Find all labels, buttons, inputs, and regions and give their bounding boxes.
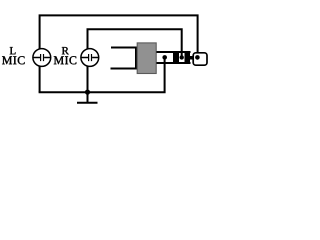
wire: bottom ground rail to sleeve bbox=[39, 58, 165, 92]
label MIC (left) bbox=[2, 56, 24, 64]
label MIC (right) bbox=[54, 56, 76, 64]
microphone L MIC bbox=[33, 49, 51, 67]
insulator band 1 bbox=[173, 51, 179, 64]
plug boot (open-left box) bbox=[111, 47, 137, 70]
label L bbox=[10, 47, 16, 54]
node: ring dot bbox=[180, 55, 184, 59]
label R bbox=[62, 47, 69, 54]
wire: top rail from left rail to tip drop bbox=[40, 15, 198, 92]
plug tip bbox=[193, 53, 207, 65]
node: tip dot bbox=[195, 55, 200, 60]
ground bbox=[77, 92, 98, 103]
node: ground junction dot bbox=[85, 90, 90, 95]
tip neck bbox=[189, 56, 196, 60]
node: sleeve dot bbox=[162, 55, 167, 60]
plug body (gray rect) bbox=[137, 43, 156, 74]
plug shaft outline bbox=[157, 52, 191, 63]
wire: second rail from R mic to ring drop bbox=[88, 29, 182, 92]
microphone R MIC bbox=[81, 49, 99, 67]
insulator band 2 bbox=[185, 51, 191, 64]
